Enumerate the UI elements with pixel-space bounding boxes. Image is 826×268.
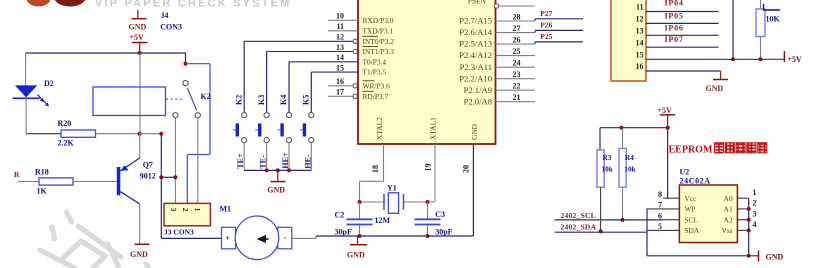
wire button K3 to ground bus: [266, 143, 268, 171]
svg-text:Vcc: Vcc: [685, 194, 698, 203]
relay K1 coil: [93, 87, 166, 116]
pin 2 A1: [737, 208, 748, 210]
pin 20 wire: [472, 144, 474, 236]
svg-text:11: 11: [336, 22, 344, 31]
wire switch throw2 to J3 pin1: [197, 118, 199, 204]
svg-text:J3 CON3: J3 CON3: [164, 228, 194, 237]
svg-text:D2: D2: [44, 79, 54, 88]
svg-text:30pF: 30pF: [435, 228, 452, 237]
resistor R? 10K: [760, 0, 762, 9]
wire button K5 to ground bus: [310, 143, 312, 171]
svg-text:2: 2: [181, 208, 189, 212]
svg-text:1K: 1K: [37, 187, 48, 196]
pin 18 wire: [383, 144, 385, 181]
wire rail extension to motor branch: [140, 133, 162, 135]
svg-text:2: 2: [753, 199, 757, 208]
svg-text:25: 25: [513, 47, 521, 56]
pin 1 A0: [737, 197, 748, 199]
svg-text:16: 16: [636, 62, 644, 71]
wire IC pin to button K4: [288, 62, 290, 113]
pin 12 INT0/P3.2: [244, 40, 353, 42]
svg-text:T1/P3.5: T1/P3.5: [363, 68, 387, 77]
svg-text:XTAL2: XTAL2: [375, 117, 384, 140]
svg-text:GND: GND: [130, 250, 148, 259]
svg-text:IP06: IP06: [665, 23, 684, 32]
svg-text:A0: A0: [724, 194, 733, 203]
svg-text:M1: M1: [220, 205, 232, 214]
pin 15 T1/P3.5: [311, 71, 358, 73]
svg-text:15: 15: [336, 63, 344, 72]
svg-text:CON3: CON3: [160, 23, 182, 32]
svg-text:4: 4: [753, 220, 757, 229]
svg-text:+: +: [225, 233, 230, 243]
svg-text:12: 12: [336, 33, 344, 42]
node switch branch junction: [184, 62, 188, 66]
svg-text:GND: GND: [766, 253, 784, 262]
svg-text:19: 19: [424, 164, 433, 172]
svg-text:RXD/P3.0: RXD/P3.0: [363, 16, 394, 25]
svg-text:22: 22: [513, 82, 521, 91]
svg-text:16: 16: [336, 77, 344, 86]
svg-text:WP: WP: [685, 205, 696, 214]
svg-text:20: 20: [462, 165, 471, 173]
pin 8 Vcc: [663, 197, 679, 199]
node emitter rail junction: [138, 132, 142, 136]
svg-text:21: 21: [513, 93, 521, 102]
wire R3 to SDA: [600, 187, 602, 231]
watermark stroke: [40, 212, 150, 268]
pin 11 TXD/P3.1: [328, 30, 358, 32]
svg-text:HE+: HE+: [281, 152, 290, 169]
svg-text:T0/P3.4: T0/P3.4: [363, 57, 387, 66]
overline INT0: [363, 35, 379, 37]
svg-text:C2: C2: [335, 211, 345, 220]
svg-text:GND: GND: [267, 186, 285, 195]
svg-text:26: 26: [513, 35, 521, 44]
pin 19 wire: [434, 144, 436, 202]
svg-text:GND: GND: [347, 251, 365, 260]
wire Q7 collector down: [139, 204, 141, 244]
svg-text:IP05: IP05: [665, 11, 684, 20]
capacitor C3 30pF: [427, 202, 429, 219]
overline RD: [363, 90, 374, 92]
svg-text:R18: R18: [35, 168, 49, 177]
svg-text:10k: 10k: [602, 165, 614, 174]
svg-text:17: 17: [336, 88, 344, 97]
wire branch to J3 pin2 (upper run): [186, 63, 211, 65]
pin 13 INT1/P3.3: [267, 51, 353, 53]
svg-text:EEPROM: EEPROM: [669, 145, 713, 156]
ground GND (connector pin16): [720, 71, 722, 79]
transistor Q7 9012: [117, 167, 121, 195]
wire net R to R18: [18, 181, 39, 183]
svg-text:10K: 10K: [766, 15, 781, 24]
svg-text:18: 18: [371, 165, 380, 173]
wire IC pin to button K5: [310, 72, 312, 113]
svg-text:WR/P3.6: WR/P3.6: [363, 81, 391, 90]
wire R20 to junction: [96, 133, 140, 135]
svg-text:24: 24: [513, 59, 521, 68]
pin 3 A2: [737, 219, 748, 221]
svg-text:GND: GND: [129, 22, 147, 31]
svg-text:SCL: SCL: [685, 215, 699, 224]
svg-text:2402_SDA: 2402_SDA: [561, 222, 597, 231]
pin 17 RD/P3.7: [328, 95, 353, 97]
svg-text:P26: P26: [540, 21, 552, 30]
wire button K2 to ground bus: [243, 143, 245, 171]
wire IC pin to button K3: [266, 52, 268, 113]
svg-text:R4: R4: [625, 153, 634, 162]
svg-text:SDA: SDA: [685, 226, 700, 235]
wire IC pin to button K2: [243, 41, 245, 112]
svg-text:15: 15: [636, 51, 644, 60]
svg-text:R: R: [14, 170, 20, 179]
svg-text:K4: K4: [279, 95, 288, 105]
svg-text:C3: C3: [435, 210, 445, 219]
wire R4 to SCL: [622, 187, 624, 220]
svg-text:P25: P25: [540, 32, 552, 41]
pin 5 SDA: [663, 229, 679, 231]
svg-text:A2: A2: [724, 215, 733, 224]
wire Q7 emitter up: [139, 134, 141, 158]
wire button ground bus: [244, 169, 311, 171]
svg-text:U2: U2: [680, 168, 690, 177]
svg-text:P2.1/A9: P2.1/A9: [464, 85, 492, 95]
ground GND (J4): [137, 10, 139, 18]
svg-text:14: 14: [636, 38, 644, 47]
resistor R4 10k: [622, 128, 624, 149]
svg-text:Vss: Vss: [722, 226, 733, 235]
svg-text:P2.0/A8: P2.0/A8: [464, 96, 492, 106]
svg-text:6: 6: [658, 212, 662, 221]
wire switch throw1 to J3 pin3: [174, 118, 176, 204]
overline INT1: [363, 46, 379, 48]
svg-text:TE+: TE+: [236, 153, 245, 169]
wire SDA: [555, 231, 648, 233]
resistor R3 10k: [597, 150, 604, 187]
svg-text:11: 11: [636, 3, 644, 12]
svg-text:P27: P27: [540, 9, 552, 18]
svg-text:14: 14: [336, 53, 344, 62]
ground GND (crystal): [357, 236, 359, 244]
wire button K4 to ground bus: [288, 143, 290, 171]
svg-text:K5: K5: [302, 95, 311, 105]
wire Vcc to +5V rail: [667, 128, 669, 199]
pin 27 P2.6/A14: [496, 32, 536, 34]
wire SCL: [555, 219, 664, 221]
IC U1 microcontroller body: [358, 0, 496, 144]
svg-text:IP04: IP04: [665, 0, 684, 8]
svg-text:2.2K: 2.2K: [58, 139, 75, 148]
svg-text:1: 1: [193, 208, 201, 212]
wire net P25: [534, 42, 536, 44]
ground GND (buttons): [277, 170, 279, 181]
svg-text:HE-: HE-: [303, 154, 312, 169]
node crystal left: [358, 200, 362, 204]
svg-text:30pF: 30pF: [335, 228, 352, 237]
resistor R20 2.2K: [61, 130, 96, 137]
svg-text:R3: R3: [603, 153, 612, 162]
svg-text:P2.3/A11: P2.3/A11: [460, 62, 492, 72]
svg-text:P2.5/A13: P2.5/A13: [459, 39, 492, 49]
connector J3 CON3: [164, 203, 210, 225]
svg-text:12: 12: [636, 15, 644, 24]
wire relay coil vertical: [139, 53, 141, 134]
wire vertical from top: [732, 0, 734, 59]
wire rail to R3: [599, 128, 601, 150]
pin 7 WP: [647, 208, 679, 210]
node +5V stem junction: [138, 51, 142, 55]
svg-text:GND: GND: [470, 123, 479, 140]
relay switch K2: [183, 81, 188, 86]
svg-text:27: 27: [513, 24, 521, 33]
wire +5V rail: [26, 52, 186, 54]
svg-text:INT1/P3.3: INT1/P3.3: [363, 47, 395, 56]
svg-text:2402_SCL: 2402_SCL: [561, 211, 596, 220]
pin 25 P2.4/A12: [496, 55, 536, 57]
svg-text:INT0/P3.2: INT0/P3.2: [363, 37, 395, 46]
wire R18 to Q7 base: [73, 181, 117, 183]
resistor R18 1K: [39, 178, 73, 185]
pin 28 P2.7/A15: [496, 20, 536, 22]
svg-text:R20: R20: [58, 119, 72, 128]
svg-text:1: 1: [753, 188, 757, 197]
pin 29 PSEN partial: [499, 5, 535, 7]
svg-text:10k: 10k: [624, 165, 636, 174]
wire motor branch link: [161, 176, 175, 178]
capacitor C2 30pF: [359, 202, 361, 219]
svg-text:Y1: Y1: [387, 184, 397, 193]
wire switch common branch: [185, 53, 187, 64]
wire net P26: [534, 30, 536, 32]
wire WP to ground rail: [646, 209, 648, 256]
wire motor to ground rail: [292, 237, 316, 239]
pin 6 SCL: [663, 219, 679, 221]
svg-text:K2: K2: [201, 92, 211, 101]
power +5V (connector): [762, 58, 784, 60]
overline WR: [363, 80, 375, 82]
svg-text:+5V: +5V: [788, 55, 803, 64]
svg-text:3: 3: [753, 210, 757, 219]
pin 14 T0/P3.4: [289, 61, 358, 63]
wire motor branch down: [160, 134, 162, 239]
ground GND (Q7): [135, 243, 150, 245]
connector 16-pin header: [611, 0, 646, 81]
node crystal right: [426, 200, 430, 204]
LED D2: [15, 85, 37, 97]
svg-text:TXD/P3.1: TXD/P3.1: [363, 26, 394, 35]
svg-text:13: 13: [336, 43, 344, 52]
svg-text:23: 23: [513, 70, 521, 79]
svg-text:9012: 9012: [140, 172, 156, 181]
wire address pins common: [748, 198, 750, 256]
wire LED to R20: [25, 98, 27, 133]
svg-text:A1: A1: [724, 205, 733, 214]
svg-text:12M: 12M: [375, 216, 391, 225]
node motor branch junction: [173, 175, 177, 179]
relay actuation dotted link: [166, 98, 184, 100]
svg-text:TE-: TE-: [259, 155, 268, 169]
pin 4 Vss: [737, 229, 748, 231]
wire EEPROM +5V rail: [600, 127, 670, 129]
watermark logo fragment: [27, 0, 51, 7]
wire net P27: [534, 19, 536, 21]
svg-text:K3: K3: [257, 95, 266, 105]
wire crystal ground rail: [316, 235, 473, 237]
svg-text:10: 10: [336, 12, 344, 21]
svg-text:XTAL1: XTAL1: [429, 117, 438, 140]
pin 24 P2.3/A11: [496, 66, 536, 68]
svg-text:13: 13: [636, 27, 644, 36]
svg-text:3: 3: [169, 208, 177, 212]
svg-text:P2.4/A12: P2.4/A12: [459, 50, 492, 60]
ground GND (EEPROM): [749, 255, 758, 257]
svg-text:P2.7/A15: P2.7/A15: [459, 16, 492, 26]
wire LED branch down: [25, 53, 27, 85]
svg-text:PSEN: PSEN: [468, 0, 487, 6]
svg-text:28: 28: [513, 12, 521, 21]
node motor branch top junction: [159, 132, 163, 136]
pin 10 RXD/P3.0: [328, 19, 358, 21]
svg-text:VIP PAPER CHECK SYSTEM: VIP PAPER CHECK SYSTEM: [95, 0, 292, 10]
pin 26 P2.5/A13: [496, 43, 536, 45]
svg-text:J4: J4: [161, 11, 169, 20]
svg-text:K2: K2: [234, 95, 243, 105]
svg-text:P2.2/A10: P2.2/A10: [459, 73, 492, 83]
svg-text:Q7: Q7: [143, 160, 153, 169]
svg-text:P2.6/A14: P2.6/A14: [459, 27, 492, 37]
svg-text:+5V: +5V: [130, 33, 145, 42]
svg-text:8: 8: [658, 190, 662, 199]
pin 16 WR/P3.6: [328, 85, 353, 87]
wire EEPROM ground rail: [647, 255, 749, 257]
svg-text:+5V: +5V: [658, 106, 673, 115]
pin 23 P2.2/A10: [496, 78, 536, 80]
svg-text:GND: GND: [706, 84, 724, 93]
svg-text:RD/P3.7: RD/P3.7: [363, 92, 389, 101]
svg-text:-: -: [284, 234, 287, 244]
pin 21 P2.0/A8: [496, 101, 536, 103]
svg-text:24C02A: 24C02A: [680, 177, 711, 186]
svg-text:IP07: IP07: [665, 35, 684, 44]
svg-text:7: 7: [658, 201, 662, 210]
pin 22 P2.1/A9: [496, 89, 536, 91]
